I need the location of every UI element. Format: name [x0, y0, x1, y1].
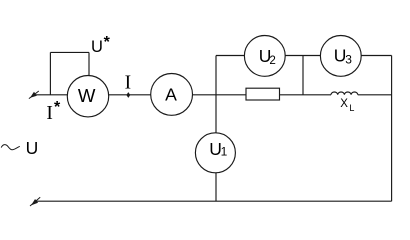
svg-text:W: W — [78, 85, 96, 106]
svg-text:X: X — [340, 98, 348, 110]
svg-text:L: L — [349, 103, 354, 113]
AC source tilde — [1, 145, 20, 150]
wire: top rail left segment — [216, 55, 244, 57]
inductor XL coil — [331, 92, 358, 95]
svg-text:*: * — [104, 34, 111, 51]
wire: W to A with current arrow — [109, 94, 151, 96]
svg-text:*: * — [54, 99, 61, 116]
svg-text:U: U — [26, 138, 39, 158]
svg-text:2: 2 — [269, 54, 275, 67]
resistor R — [246, 88, 280, 100]
label U1 — [209, 139, 227, 159]
voltmeter U2 — [244, 36, 285, 77]
label U2 — [259, 46, 276, 67]
label I* (wattmeter current terminal) — [46, 99, 61, 124]
label U3 — [334, 45, 352, 66]
wire: resistor to inductor — [280, 94, 332, 96]
wattmeter W — [67, 76, 108, 117]
svg-text:1: 1 — [221, 144, 228, 158]
voltmeter U3 — [320, 36, 361, 77]
wire: voltage tap up from line — [49, 52, 51, 94]
svg-text:I: I — [125, 72, 132, 93]
svg-text:3: 3 — [345, 53, 352, 67]
source terminal arrow top-left — [29, 91, 39, 99]
wire: U1 branch vertical upper — [215, 56, 217, 133]
source terminal arrow bottom-left — [30, 197, 40, 206]
voltmeter U1 — [195, 133, 235, 173]
wire: loop down to wattmeter top — [88, 52, 90, 75]
svg-text:I: I — [46, 103, 53, 124]
wire: U1 to bottom rail — [215, 173, 217, 201]
wire: inductor to right rail — [358, 94, 392, 96]
wire: top of voltage loop — [50, 51, 89, 53]
wire: top rail between U2 and U3 — [285, 55, 320, 57]
wire: bottom rail — [35, 200, 392, 202]
wire: top rail right segment — [361, 55, 391, 57]
wire: right rail vertical — [391, 56, 393, 202]
wire: source to wattmeter — [35, 94, 68, 96]
label XL (inductive reactance) — [340, 98, 354, 113]
current direction marker (diamond) — [127, 93, 130, 98]
ammeter A — [151, 74, 193, 116]
svg-text:U: U — [91, 38, 103, 56]
label U* (wattmeter voltage terminal) — [91, 34, 111, 56]
wire: A to resistor — [193, 94, 246, 96]
wire: middle vertical (node between R and XL up to top rail) — [302, 56, 304, 95]
svg-text:A: A — [165, 84, 177, 104]
